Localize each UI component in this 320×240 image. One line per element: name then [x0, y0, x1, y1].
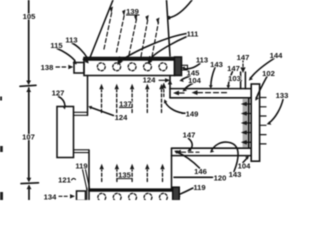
svg-text:147: 147 — [183, 131, 196, 140]
svg-text:124: 124 — [143, 76, 156, 85]
svg-text:111: 111 — [187, 30, 200, 39]
svg-text:147: 147 — [227, 64, 240, 73]
svg-text:107: 107 — [22, 133, 35, 142]
svg-text:102: 102 — [262, 69, 275, 78]
svg-text:104: 104 — [188, 76, 201, 85]
svg-text:147: 147 — [237, 53, 250, 62]
svg-text:103: 103 — [228, 74, 241, 83]
svg-text:143: 143 — [210, 60, 223, 69]
svg-text:133: 133 — [276, 91, 289, 100]
svg-text:146: 146 — [194, 167, 207, 176]
svg-text:127: 127 — [52, 89, 65, 98]
svg-text:121: 121 — [58, 176, 71, 185]
svg-text:134: 134 — [44, 193, 57, 201]
svg-text:119: 119 — [193, 183, 205, 192]
svg-text:113: 113 — [65, 36, 77, 45]
svg-text:104: 104 — [238, 162, 251, 171]
svg-text:124: 124 — [115, 113, 128, 122]
svg-text:113: 113 — [196, 56, 208, 65]
svg-text:149: 149 — [186, 110, 199, 119]
svg-text:120: 120 — [214, 174, 227, 183]
svg-text:144: 144 — [270, 51, 283, 60]
svg-text:119: 119 — [75, 162, 87, 171]
svg-text:115: 115 — [50, 41, 63, 50]
svg-text:143: 143 — [229, 170, 242, 179]
svg-text:105: 105 — [23, 12, 36, 21]
svg-text:138: 138 — [41, 63, 54, 72]
